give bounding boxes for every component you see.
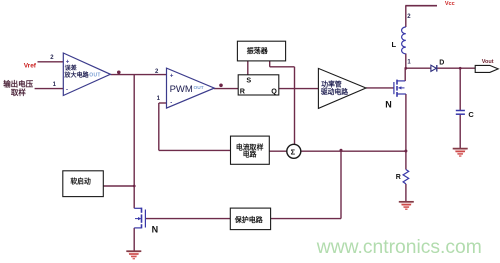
svg-text:S: S bbox=[246, 76, 251, 85]
svg-text:OUT: OUT bbox=[194, 85, 204, 91]
svg-text:+: + bbox=[66, 59, 70, 65]
svg-text:www.cntronics.com: www.cntronics.com bbox=[316, 237, 482, 258]
svg-text:输出电压: 输出电压 bbox=[3, 78, 33, 88]
svg-text:误差: 误差 bbox=[65, 64, 77, 72]
svg-text:Σ: Σ bbox=[291, 148, 296, 157]
svg-text:-: - bbox=[170, 100, 172, 106]
svg-text:电流取样: 电流取样 bbox=[236, 143, 264, 152]
svg-text:L: L bbox=[392, 40, 397, 49]
svg-text:-: - bbox=[66, 88, 68, 94]
svg-text:N: N bbox=[385, 100, 392, 110]
svg-text:Q: Q bbox=[271, 86, 277, 95]
svg-text:驱动电路: 驱动电路 bbox=[321, 87, 348, 96]
svg-text:C: C bbox=[468, 110, 474, 119]
svg-text:+: + bbox=[170, 73, 174, 79]
svg-text:R: R bbox=[396, 174, 401, 181]
svg-text:Vref: Vref bbox=[24, 63, 37, 70]
svg-text:电路: 电路 bbox=[243, 149, 257, 158]
svg-text:取样: 取样 bbox=[11, 87, 26, 97]
svg-text:功率管: 功率管 bbox=[321, 79, 342, 88]
svg-text:保护电路: 保护电路 bbox=[234, 215, 264, 224]
svg-text:R: R bbox=[240, 87, 246, 96]
svg-text:软启动: 软启动 bbox=[70, 176, 91, 185]
svg-text:OUT: OUT bbox=[89, 72, 100, 78]
svg-text:D: D bbox=[439, 60, 444, 67]
svg-text:N: N bbox=[152, 224, 159, 234]
svg-text:放大电路: 放大电路 bbox=[63, 71, 89, 79]
svg-text:Vcc: Vcc bbox=[445, 1, 455, 7]
svg-text:Vout: Vout bbox=[482, 59, 494, 65]
svg-text:振荡器: 振荡器 bbox=[247, 46, 269, 55]
svg-text:PWM: PWM bbox=[170, 84, 193, 95]
